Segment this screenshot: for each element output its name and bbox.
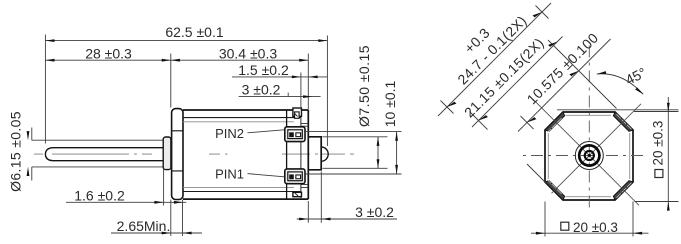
svg-text:PIN2: PIN2 (215, 126, 244, 141)
svg-text:30.4 ±0.3: 30.4 ±0.3 (219, 45, 277, 61)
svg-text:28 ±0.3: 28 ±0.3 (85, 45, 132, 61)
svg-text:62.5 ±0.1: 62.5 ±0.1 (165, 24, 223, 40)
svg-text:3 ±0.2: 3 ±0.2 (242, 81, 281, 97)
svg-text:45°: 45° (623, 64, 649, 88)
svg-text:PIN1: PIN1 (215, 166, 244, 181)
svg-text:Ø6.15 ±0.05: Ø6.15 ±0.05 (8, 111, 24, 192)
svg-text:1.6 ±0.2: 1.6 ±0.2 (74, 187, 125, 203)
svg-text:1.5 ±0.2: 1.5 ±0.2 (238, 62, 289, 78)
svg-text:10 ±0.1: 10 ±0.1 (382, 80, 398, 127)
svg-text:3 ±0.2: 3 ±0.2 (355, 204, 394, 220)
svg-text:20 ±0.3: 20 ±0.3 (573, 220, 618, 235)
svg-text:2.65Min.: 2.65Min. (117, 218, 171, 234)
svg-text:20 ±0.3: 20 ±0.3 (651, 121, 666, 166)
svg-text:Ø7.50 ±0.15: Ø7.50 ±0.15 (356, 45, 372, 127)
